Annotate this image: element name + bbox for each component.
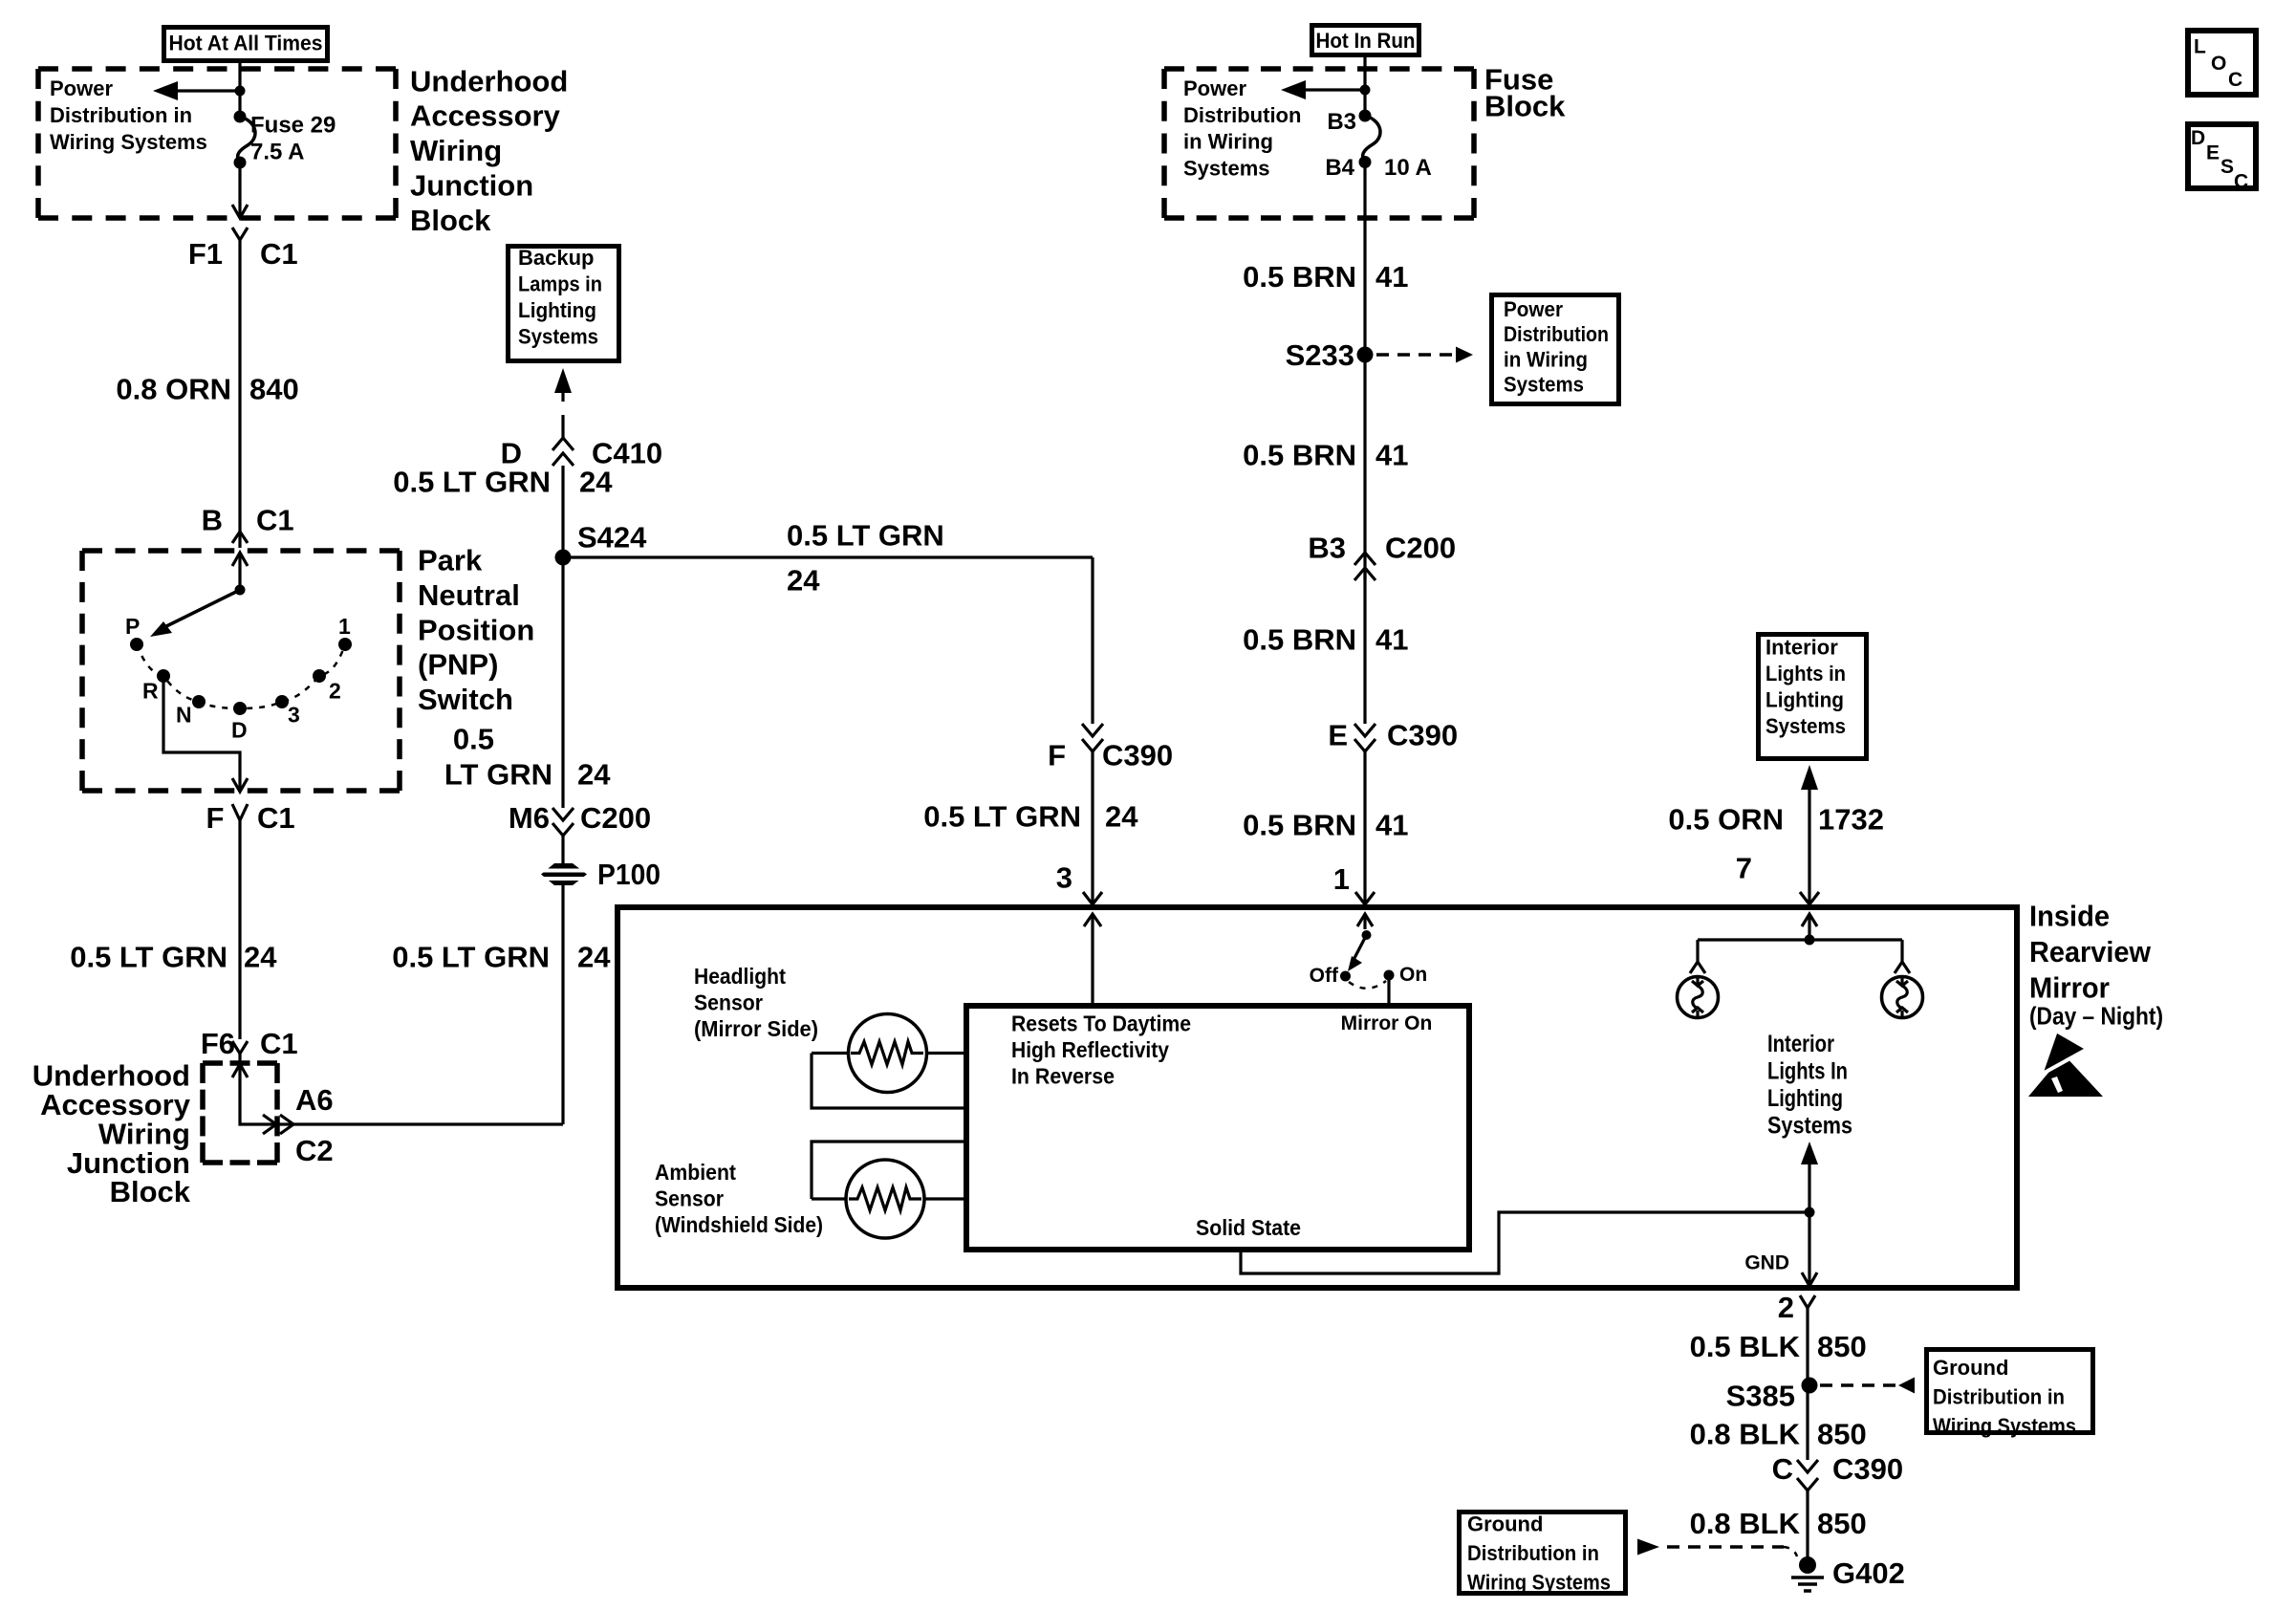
- label Fuse Block: [1484, 62, 1566, 122]
- wire 0.5 LT GRN 24 (left column): [70, 820, 277, 1039]
- svg-text:0.5 BRN: 0.5 BRN: [1243, 439, 1356, 472]
- wire 0.5 BLK 850: [1690, 1308, 1867, 1385]
- svg-text:Accessory: Accessory: [410, 99, 561, 133]
- svg-text:B4: B4: [1325, 155, 1354, 181]
- svg-text:Fuse 29: Fuse 29: [250, 113, 336, 139]
- svg-text:0.5 ORN: 0.5 ORN: [1668, 803, 1784, 837]
- svg-text:840: 840: [249, 373, 299, 406]
- svg-text:(PNP): (PNP): [418, 648, 498, 682]
- svg-text:Distribution in: Distribution in: [1933, 1384, 2065, 1408]
- label Underhood Accessory Wiring Junction Block (lower): [32, 1059, 191, 1209]
- svg-text:F1: F1: [188, 237, 223, 271]
- node Backup Lamps in Lighting Systems box: [509, 246, 619, 361]
- svg-text:Power: Power: [1183, 76, 1246, 100]
- svg-text:S385: S385: [1726, 1380, 1795, 1413]
- splice S385: [1726, 1378, 1818, 1413]
- svg-text:P100: P100: [597, 858, 661, 891]
- svg-text:Junction: Junction: [410, 169, 533, 203]
- svg-text:Neutral: Neutral: [418, 578, 520, 612]
- svg-text:0.5 BLK: 0.5 BLK: [1690, 1330, 1801, 1363]
- arrow to power distribution (fuse block): [1281, 80, 1371, 99]
- svg-text:C390: C390: [1102, 739, 1173, 772]
- dashed arrow S233 to power distribution: [1376, 347, 1473, 363]
- svg-text:Hot At All Times: Hot At All Times: [169, 32, 323, 55]
- connector C410 terminal D: [501, 437, 663, 470]
- svg-text:Lighting: Lighting: [1767, 1085, 1843, 1112]
- svg-text:A6: A6: [295, 1083, 334, 1117]
- svg-text:Wiring Systems: Wiring Systems: [50, 130, 207, 154]
- svg-text:41: 41: [1375, 260, 1408, 294]
- node Ground Distribution in Wiring Systems box (right): [1927, 1350, 2093, 1438]
- svg-text:Inside: Inside: [2029, 899, 2110, 932]
- headlight sensor (mirror side): [694, 964, 966, 1108]
- svg-text:M6: M6: [509, 801, 550, 835]
- wire M6 to P100: [561, 836, 564, 864]
- svg-text:Systems: Systems: [1765, 714, 1846, 738]
- svg-text:Mirror: Mirror: [2029, 970, 2110, 1004]
- svg-text:Off: Off: [1310, 965, 1339, 987]
- splice S233: [1286, 338, 1374, 372]
- svg-text:C200: C200: [1385, 531, 1456, 564]
- label Underhood Accessory Wiring Junction Block: [410, 64, 568, 237]
- svg-text:F: F: [206, 801, 232, 835]
- svg-text:C: C: [2228, 69, 2242, 91]
- label Interior Lights In Lighting Systems (internal): [1767, 1031, 1852, 1140]
- splice S424: [555, 521, 648, 566]
- svg-text:Distribution in: Distribution in: [50, 103, 192, 127]
- wire from R terminal down out of switch: [163, 676, 248, 792]
- connector C390 terminal C: [1772, 1452, 1904, 1490]
- svg-text:Ambient: Ambient: [655, 1160, 736, 1185]
- node Interior Lights in Lighting Systems box: [1759, 635, 1867, 759]
- svg-text:F6: F6: [201, 1027, 235, 1060]
- svg-text:S233: S233: [1286, 338, 1354, 372]
- connector C1 terminal B: [202, 504, 294, 543]
- svg-text:E: E: [2206, 141, 2220, 163]
- svg-text:C200: C200: [580, 801, 651, 835]
- svg-text:D: D: [2191, 127, 2205, 149]
- svg-text:(Windshield Side): (Windshield Side): [655, 1212, 823, 1237]
- svg-text:0.8 BLK: 0.8 BLK: [1690, 1418, 1801, 1451]
- svg-text:C1: C1: [260, 237, 298, 271]
- node Power Distribution in Wiring Systems box: [1492, 295, 1619, 404]
- dashed arrow S385 to ground distribution: [1820, 1378, 1915, 1394]
- svg-text:24: 24: [1105, 799, 1138, 833]
- svg-text:C1: C1: [257, 801, 295, 835]
- svg-text:(Mirror Side): (Mirror Side): [694, 1016, 818, 1041]
- svg-text:Block: Block: [110, 1175, 191, 1208]
- svg-text:in Wiring: in Wiring: [1504, 347, 1588, 371]
- svg-text:L: L: [2194, 36, 2206, 58]
- lamp right (interior light): [1882, 940, 1923, 1018]
- svg-text:Wiring Systems: Wiring Systems: [1467, 1570, 1611, 1594]
- connector C1 terminal F6: [201, 1027, 298, 1061]
- svg-text:Solid State: Solid State: [1196, 1215, 1301, 1240]
- svg-text:C1: C1: [256, 504, 294, 537]
- svg-text:0.5 LT GRN: 0.5 LT GRN: [393, 466, 551, 499]
- connector C200 terminal B3: [1308, 531, 1456, 580]
- svg-text:1732: 1732: [1818, 803, 1884, 837]
- svg-text:24: 24: [787, 564, 820, 598]
- svg-text:41: 41: [1375, 439, 1408, 472]
- svg-text:Headlight: Headlight: [694, 964, 786, 989]
- GND arrow down: [1744, 1212, 1817, 1286]
- switch contact arc (dashed): [137, 644, 345, 708]
- wire from Hot In Run: [1363, 57, 1366, 116]
- svg-text:Interior: Interior: [1765, 636, 1838, 660]
- svg-text:41: 41: [1375, 808, 1408, 841]
- svg-text:0.5 LT GRN: 0.5 LT GRN: [923, 799, 1081, 833]
- svg-text:Switch: Switch: [418, 683, 513, 716]
- svg-text:N: N: [176, 703, 192, 728]
- svg-text:24: 24: [577, 941, 611, 974]
- svg-text:Distribution: Distribution: [1183, 103, 1301, 127]
- internal arrow up to interior lights label: [1801, 1142, 1818, 1218]
- svg-text:24: 24: [579, 466, 613, 499]
- svg-text:B: B: [202, 504, 223, 537]
- svg-text:Systems: Systems: [1183, 157, 1270, 181]
- svg-text:0.5 BRN: 0.5 BRN: [1243, 622, 1356, 656]
- pin 3 internal arrow to solid state: [1084, 914, 1101, 1006]
- svg-text:Rearview: Rearview: [2029, 935, 2152, 968]
- svg-text:C390: C390: [1387, 718, 1458, 751]
- connector C2 terminal A6: [263, 1083, 334, 1167]
- wire 0.5 BRN 41 (S233 to C200): [1243, 355, 1408, 579]
- svg-text:C390: C390: [1832, 1452, 1903, 1486]
- wire from Hot At All Times into junction block: [238, 60, 241, 117]
- svg-text:Power: Power: [50, 76, 113, 100]
- connector C390 terminal E: [1328, 718, 1458, 751]
- svg-text:Position: Position: [418, 613, 534, 646]
- svg-text:Lamps in: Lamps in: [518, 272, 602, 296]
- PNP switch box (dashed): [82, 548, 400, 554]
- grommet P100: [541, 858, 661, 891]
- svg-text:0.8 BLK: 0.8 BLK: [1690, 1507, 1801, 1540]
- label Resets To Daytime High Reflectivity In Reverse: [1011, 1012, 1191, 1089]
- wire fuse to connector C1: [238, 163, 241, 218]
- node Ground Distribution in Wiring Systems box (left): [1460, 1512, 1626, 1595]
- component solid state module outline: [966, 1006, 1469, 1250]
- label Inside Rearview Mirror (Day - Night): [2029, 899, 2163, 1030]
- svg-text:Distribution in: Distribution in: [1467, 1541, 1599, 1565]
- svg-text:0.8 ORN: 0.8 ORN: [116, 373, 231, 406]
- arrow to power distribution (left): [153, 81, 246, 100]
- wire 0.5 LT GRN 24 (S424 down to M6): [444, 557, 611, 808]
- svg-text:(Day – Night): (Day – Night): [2029, 1001, 2163, 1030]
- ground G402: [1791, 1556, 1905, 1591]
- svg-text:2: 2: [329, 679, 341, 704]
- svg-text:0.5 LT GRN: 0.5 LT GRN: [787, 518, 944, 552]
- svg-text:3: 3: [1056, 861, 1072, 895]
- svg-text:Lights in: Lights in: [1765, 662, 1846, 685]
- pin 7 of mirror connector: [1736, 852, 1819, 905]
- svg-text:C: C: [1772, 1452, 1793, 1486]
- svg-text:Underhood: Underhood: [410, 64, 568, 98]
- svg-text:S: S: [2220, 156, 2234, 178]
- svg-text:C: C: [2234, 170, 2248, 192]
- svg-text:Sensor: Sensor: [655, 1186, 724, 1210]
- svg-text:0.5 LT GRN: 0.5 LT GRN: [392, 941, 550, 974]
- svg-text:850: 850: [1817, 1330, 1867, 1363]
- svg-text:C2: C2: [295, 1134, 334, 1167]
- svg-text:On: On: [1399, 964, 1427, 986]
- svg-text:LT GRN: LT GRN: [444, 757, 552, 791]
- svg-text:Ground: Ground: [1933, 1356, 2008, 1380]
- svg-text:0.5 BRN: 0.5 BRN: [1243, 260, 1356, 294]
- svg-text:Systems: Systems: [518, 325, 598, 349]
- svg-text:Wiring: Wiring: [410, 134, 502, 167]
- svg-text:O: O: [2211, 53, 2226, 75]
- pin 1 internal arrow and mirror switch: [1348, 914, 1373, 971]
- svg-text:Lighting: Lighting: [1765, 687, 1844, 711]
- svg-text:0.5 BRN: 0.5 BRN: [1243, 808, 1356, 841]
- pin 2 of mirror connector: [1778, 1291, 1815, 1324]
- svg-text:24: 24: [244, 941, 277, 974]
- wire 0.5 BRN 41 (C200 to C390): [1243, 568, 1408, 724]
- wire 0.5 ORN 1732: [1668, 803, 1884, 837]
- fuse Fuse 29 7.5 A: [234, 111, 336, 169]
- pin 7 internal arrow and lamp branch: [1698, 914, 1902, 946]
- label Park Neutral Position (PNP) Switch: [418, 544, 534, 717]
- svg-text:F: F: [1048, 739, 1066, 772]
- svg-text:3: 3: [288, 703, 300, 728]
- svg-text:C1: C1: [260, 1027, 298, 1060]
- svg-text:Resets To Daytime: Resets To Daytime: [1011, 1012, 1191, 1036]
- connector C390 terminal F: [1048, 724, 1173, 772]
- node Hot In Run box: [1312, 26, 1419, 55]
- pin 3 of mirror connector: [1056, 861, 1102, 904]
- wire On contact to solid state: [1387, 975, 1390, 1006]
- wire 0.5 BRN 41 (C390 to pin 1): [1243, 751, 1408, 905]
- svg-text:41: 41: [1375, 622, 1408, 656]
- underhood accessory wiring junction block (dashed): [38, 66, 396, 72]
- wire 0.8 ORN 840: [116, 240, 298, 548]
- label Power Distribution in Wiring Systems (fuse block): [1183, 76, 1301, 181]
- svg-text:Interior: Interior: [1767, 1031, 1834, 1057]
- svg-text:Block: Block: [1484, 89, 1566, 122]
- svg-text:0.5 LT GRN: 0.5 LT GRN: [70, 941, 227, 974]
- wire 0.5 LT GRN 24 (horizontal to C390): [563, 518, 1093, 597]
- icon DESC: [2188, 124, 2256, 192]
- svg-text:GND: GND: [1744, 1251, 1789, 1273]
- svg-text:E: E: [1328, 718, 1348, 751]
- svg-text:Lights In: Lights In: [1767, 1058, 1848, 1085]
- svg-text:7.5 A: 7.5 A: [250, 140, 304, 165]
- underhood accessory wiring junction block 2 (dashed): [203, 1060, 277, 1066]
- svg-text:Mirror On: Mirror On: [1341, 1012, 1433, 1034]
- svg-text:P: P: [125, 614, 140, 639]
- switch contact On: [1384, 964, 1428, 986]
- connector C200 terminal M6: [509, 801, 651, 836]
- svg-text:0.5: 0.5: [453, 723, 494, 756]
- ESD sensitive device symbol: [2028, 1031, 2103, 1097]
- svg-text:High Reflectivity: High Reflectivity: [1011, 1037, 1169, 1062]
- svg-text:Power: Power: [1504, 297, 1563, 321]
- svg-text:Systems: Systems: [1767, 1113, 1852, 1140]
- svg-text:In Reverse: In Reverse: [1011, 1063, 1115, 1088]
- dashed arrow ground distribution to G402 wire: [1637, 1539, 1797, 1557]
- pin 1 of mirror connector: [1333, 862, 1375, 904]
- svg-text:24: 24: [577, 757, 611, 791]
- svg-text:Hot In Run: Hot In Run: [1316, 29, 1416, 53]
- svg-text:850: 850: [1817, 1507, 1867, 1540]
- component Inside Rearview Mirror (Day-Night) outline: [617, 907, 2017, 1288]
- svg-text:Wiring Systems: Wiring Systems: [1933, 1414, 2076, 1438]
- svg-text:Backup: Backup: [518, 246, 594, 270]
- wire 0.8 BLK 850 (C390 to G402): [1690, 1490, 1867, 1565]
- svg-text:Distribution: Distribution: [1504, 322, 1609, 346]
- svg-text:Ground: Ground: [1467, 1512, 1543, 1536]
- fuse B3-B4 10 A: [1325, 109, 1432, 181]
- svg-text:G402: G402: [1832, 1556, 1905, 1590]
- label Power Distribution in Wiring Systems: [50, 76, 207, 154]
- svg-text:1: 1: [338, 614, 351, 639]
- switch contact Off: [1310, 965, 1351, 987]
- wire down from S424 branch: [1091, 557, 1094, 724]
- wire 0.5 BRN 41 (fuse to S233): [1243, 163, 1408, 356]
- switch terminals P R N D 3 2 1: [125, 614, 352, 743]
- switch wiper arm with arrow: [150, 553, 248, 637]
- wire 0.8 BLK 850 (S385 to C390): [1690, 1385, 1867, 1460]
- node Hot At All Times box: [164, 28, 328, 61]
- svg-text:10 A: 10 A: [1384, 155, 1432, 181]
- lamp left (interior light): [1678, 940, 1719, 1018]
- svg-text:Park: Park: [418, 544, 483, 577]
- svg-text:D: D: [231, 718, 248, 743]
- svg-text:S424: S424: [577, 521, 647, 555]
- svg-text:1: 1: [1333, 862, 1350, 896]
- icon LOC: [2188, 31, 2256, 95]
- svg-text:B3: B3: [1327, 109, 1356, 135]
- svg-text:in Wiring: in Wiring: [1183, 130, 1273, 154]
- arrow up to interior lights: [1801, 765, 1818, 905]
- wire 0.5 LT GRN 24 (P100 down to A6 wire): [392, 885, 611, 1124]
- svg-text:Block: Block: [410, 204, 491, 237]
- svg-text:Lighting: Lighting: [518, 298, 596, 322]
- fuse block (dashed): [1164, 66, 1474, 72]
- wire inside junction block to A6: [232, 1064, 563, 1124]
- svg-text:R: R: [142, 679, 159, 704]
- wire solid state to GND point: [1241, 1212, 1809, 1273]
- dashed travel arc Off-On: [1349, 981, 1386, 989]
- connector C1 terminal F: [206, 801, 294, 835]
- arrow up to backup lamps: [554, 368, 572, 438]
- wire 0.5 LT GRN 24 (to pin 3): [923, 751, 1138, 905]
- svg-text:7: 7: [1736, 852, 1752, 885]
- ambient sensor (windshield side): [655, 1142, 966, 1238]
- svg-text:Sensor: Sensor: [694, 990, 763, 1015]
- svg-text:Systems: Systems: [1504, 373, 1584, 397]
- wire 0.5 LT GRN 24 (above S424): [393, 466, 613, 557]
- svg-text:2: 2: [1778, 1291, 1794, 1324]
- svg-text:850: 850: [1817, 1418, 1867, 1451]
- svg-text:B3: B3: [1308, 531, 1346, 564]
- connector C1 terminal F1 (arrow into Y): [188, 205, 298, 271]
